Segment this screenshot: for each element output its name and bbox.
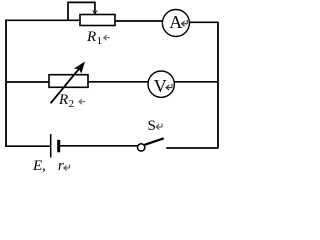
label R1 return-mark (104, 35, 110, 40)
wire : right vertical branch (217, 22, 219, 148)
ammeter A circle (162, 10, 189, 37)
label E, r (33, 158, 64, 175)
label R1 (87, 29, 102, 46)
wire : middle-left horizontal to R2 (5, 81, 49, 83)
wire : ammeter to top-right corner (189, 21, 219, 23)
switch S : pivot circle (138, 144, 145, 151)
label R2 return-mark (79, 99, 85, 104)
battery E,r : short thick plate (57, 140, 60, 153)
wire : voltmeter to right vertical (174, 81, 218, 83)
label S (148, 118, 156, 135)
voltmeter letter V (154, 76, 167, 97)
battery E,r : long thin plate (50, 134, 52, 158)
arrow across R2 (variable symbol) (51, 68, 80, 103)
resistor R1 (rheostat body) (80, 15, 115, 26)
wire : R1 to ammeter (115, 20, 163, 22)
voltmeter return-mark (166, 84, 172, 90)
resistor R2 (variable, body) (49, 75, 88, 88)
wire : left vertical branch (5, 20, 7, 147)
ammeter return-mark (182, 20, 188, 26)
voltmeter V circle (148, 71, 174, 97)
wire : bottom-left horizontal to battery (5, 145, 50, 147)
label S return-mark (156, 124, 162, 130)
label E,r return-mark (64, 165, 70, 171)
switch S : lever (open) (145, 138, 164, 145)
wire : R2 to voltmeter (88, 81, 148, 83)
wire : top-left horizontal to R1 (5, 19, 80, 21)
label R2 (59, 92, 74, 109)
arrowhead of R1 slider wiper (93, 10, 98, 14)
ammeter letter A (169, 12, 182, 33)
wire : battery to switch (60, 145, 138, 147)
wire : R1 slider tap (up, over, down) (68, 2, 95, 20)
wire : switch to bottom-right corner (166, 147, 218, 149)
